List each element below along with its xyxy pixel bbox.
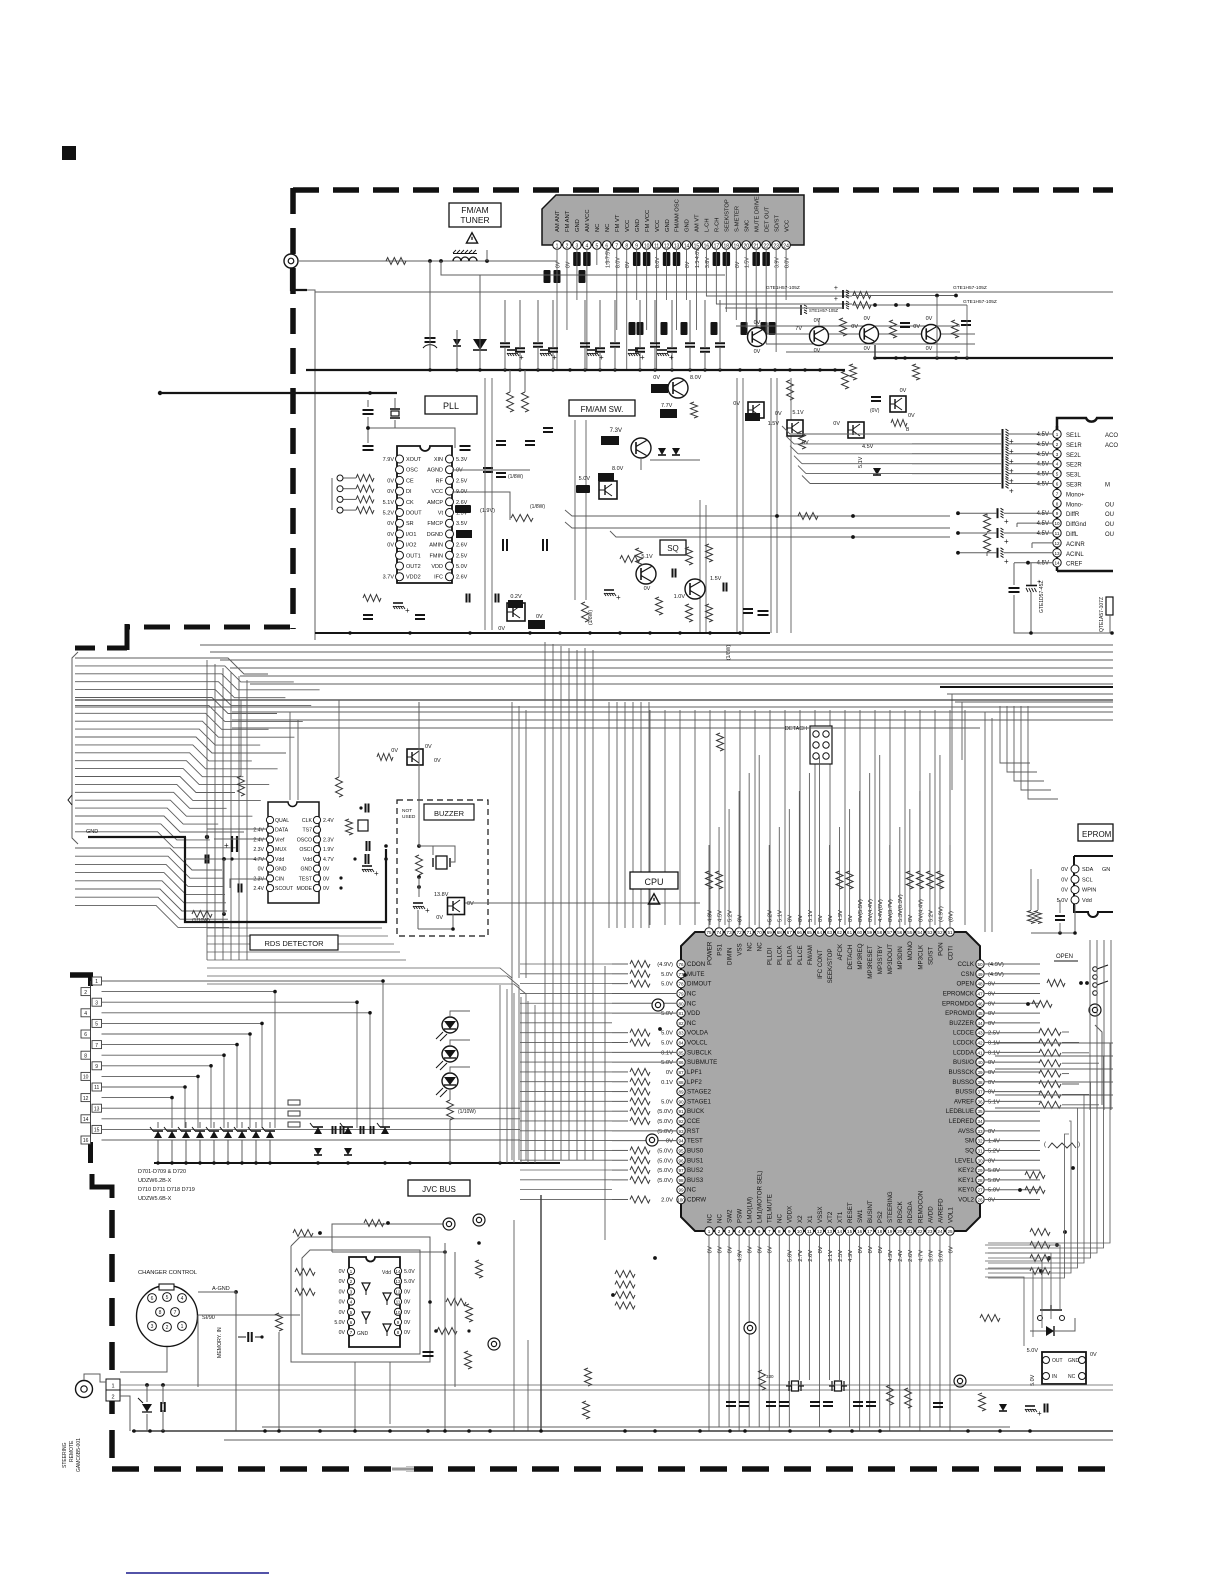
- svg-text:(0V): (0V): [948, 911, 954, 922]
- svg-text:7.7V: 7.7V: [661, 403, 673, 409]
- svg-text:8: 8: [1056, 501, 1059, 506]
- svg-text:3: 3: [576, 244, 579, 250]
- svg-text:5.1V: 5.1V: [988, 1099, 1000, 1105]
- svg-text:(4.9V): (4.9V): [988, 962, 1004, 968]
- svg-text:3.5V: 3.5V: [456, 521, 468, 527]
- capacitor C118: [900, 322, 910, 324]
- transistor Q301: [636, 564, 656, 584]
- svg-text:PS1: PS1: [716, 944, 723, 956]
- svg-text:1.3-7.5V: 1.3-7.5V: [605, 248, 611, 268]
- svg-text:TEST: TEST: [299, 876, 313, 882]
- svg-text:PSW: PSW: [737, 1209, 744, 1223]
- steering connector pins: [106, 1379, 120, 1390]
- svg-text:0V: 0V: [858, 1246, 864, 1253]
- svg-text:OU: OU: [1105, 532, 1114, 538]
- CPU right wires: [985, 963, 1040, 965]
- svg-text:11: 11: [807, 1229, 812, 1234]
- CPU pin 16 SW1: [855, 1227, 863, 1235]
- svg-text:UDZW5.6B-X: UDZW5.6B-X: [138, 1196, 172, 1202]
- CPU pin 42 LCDCK: [976, 1038, 984, 1046]
- svg-text:71: 71: [747, 930, 753, 935]
- svg-text:+: +: [519, 353, 524, 362]
- svg-text:11: 11: [1055, 531, 1060, 536]
- svg-text:MUX: MUX: [275, 847, 287, 853]
- svg-text:4: 4: [585, 244, 588, 250]
- svg-text:0V: 0V: [851, 324, 858, 330]
- CPU pin 49 CSN: [976, 970, 984, 978]
- svg-text:23: 23: [773, 244, 779, 250]
- EPROM pull resistors: [1028, 911, 1035, 924]
- svg-text:USED: USED: [402, 814, 416, 820]
- svg-text:EPROMDO: EPROMDO: [942, 1000, 974, 1007]
- connector pin 16: [81, 1136, 91, 1144]
- svg-text:TEST: TEST: [687, 1138, 703, 1145]
- verticals buzzer to staircase: [511, 702, 513, 978]
- EPROM pin 6 WPIN: [1071, 886, 1079, 894]
- tuner pin 22 voltage: [762, 252, 770, 266]
- svg-text:LCDCK: LCDCK: [953, 1040, 975, 1047]
- svg-text:AM VT: AM VT: [695, 214, 701, 232]
- GND heavy wire: [88, 836, 186, 838]
- key lower resistors: [1025, 1172, 1045, 1179]
- diode D710: [314, 1148, 322, 1155]
- svg-text:XIN: XIN: [434, 457, 443, 463]
- SM resistor bracket: [1048, 1143, 1076, 1148]
- svg-text:0V: 0V: [387, 532, 394, 538]
- changer pin 3: [148, 1322, 157, 1331]
- svg-text:SE1L: SE1L: [1066, 433, 1081, 439]
- svg-text:Vdd: Vdd: [303, 857, 312, 863]
- svg-text:RDSDA: RDSDA: [907, 1200, 914, 1223]
- diode D101: [453, 339, 461, 346]
- svg-text:0V: 0V: [323, 876, 330, 882]
- svg-text:0V: 0V: [848, 915, 854, 922]
- svg-text:4.5V: 4.5V: [1037, 462, 1049, 468]
- svg-text:53: 53: [927, 930, 933, 935]
- mid verticals jvc: [540, 1195, 542, 1431]
- svg-text:1.3-4.0V: 1.3-4.0V: [695, 248, 701, 268]
- svg-text:PON: PON: [937, 942, 944, 955]
- label JVC BUS: [408, 1180, 470, 1196]
- svg-text:PLL: PLL: [443, 401, 459, 411]
- tuner pin 13 voltage: [673, 252, 681, 266]
- svg-text:SE1R: SE1R: [1066, 443, 1082, 449]
- EPROM pin 5 Vdd: [1071, 896, 1079, 904]
- CPU pin 7 TELMUTE: [765, 1227, 773, 1235]
- steering diode: [142, 1404, 152, 1412]
- svg-text:+: +: [834, 285, 838, 292]
- svg-text:(1/8W): (1/8W): [508, 474, 523, 480]
- resistor R115: [787, 380, 794, 400]
- svg-text:Mono-: Mono-: [1066, 502, 1083, 508]
- CPU pin 93 RST: [677, 1127, 685, 1135]
- svg-text:0V: 0V: [387, 489, 394, 495]
- svg-text:+: +: [425, 906, 430, 915]
- svg-text:LEDRED: LEDRED: [949, 1118, 975, 1125]
- changer wires: [198, 1291, 236, 1293]
- CPU pin 58 MP3STBY: [876, 928, 884, 936]
- CPU pin 61 DETACH: [845, 928, 853, 936]
- svg-text:SCL: SCL: [1082, 877, 1093, 883]
- svg-text:2.5V: 2.5V: [456, 553, 468, 559]
- PLL pin 13 IFC: [446, 573, 454, 581]
- PLL pin 19 Vt: [446, 509, 454, 517]
- svg-text:NOT: NOT: [402, 808, 412, 814]
- svg-text:OSC: OSC: [406, 468, 418, 474]
- audio wires left bundle: [790, 433, 912, 435]
- svg-text:0V: 0V: [754, 349, 761, 355]
- svg-text:5.0V: 5.0V: [661, 1060, 673, 1066]
- svg-text:8.0V: 8.0V: [690, 375, 702, 381]
- svg-text:2: 2: [566, 244, 569, 250]
- svg-text:5.1V: 5.1V: [383, 500, 395, 506]
- svg-text:+: +: [599, 353, 604, 362]
- diode D102: [473, 339, 487, 350]
- tuner pin 8 VCC: [622, 241, 631, 250]
- RDS pin 9 MODE: [313, 884, 320, 891]
- wire antenna branch down: [291, 268, 307, 290]
- PLL pin 23 AGND: [446, 466, 454, 474]
- transistor Q305 boxed: [507, 603, 525, 621]
- svg-text:NC: NC: [716, 1214, 723, 1223]
- svg-text:TS7: TS7: [302, 828, 312, 834]
- CPU pin 91 BUCK: [677, 1107, 685, 1115]
- svg-text:EPROMCK: EPROMCK: [943, 990, 975, 997]
- svg-text:+: +: [1004, 557, 1009, 566]
- svg-text:+: +: [1037, 1409, 1042, 1418]
- svg-text:3: 3: [1056, 452, 1059, 457]
- svg-text:AMCP: AMCP: [427, 500, 443, 506]
- svg-text:+: +: [1004, 517, 1009, 526]
- CPU pin 44 BUZZER: [976, 1019, 984, 1027]
- resistor diag: [511, 515, 533, 522]
- svg-text:3: 3: [151, 1324, 154, 1330]
- svg-text:0V: 0V: [467, 901, 474, 907]
- svg-text:5: 5: [748, 1229, 751, 1234]
- svg-text:24: 24: [937, 1229, 943, 1234]
- changer pin 4: [178, 1294, 187, 1303]
- svg-text:4.5V: 4.5V: [1037, 452, 1049, 458]
- wire fan lower tail: [75, 848, 222, 870]
- jvc area resistors: [364, 1220, 384, 1227]
- RDS section frame: [185, 837, 386, 922]
- RDS pin 7 CIN: [266, 875, 273, 882]
- svg-text:5.0V: 5.0V: [661, 1031, 673, 1037]
- svg-text:VCC: VCC: [431, 489, 443, 495]
- diode D706: [224, 1131, 232, 1138]
- changer pin 7: [171, 1308, 180, 1317]
- diode D711: [344, 1148, 352, 1155]
- svg-text:2: 2: [718, 1229, 721, 1234]
- svg-text:0V: 0V: [387, 543, 394, 549]
- svg-text:2: 2: [1056, 442, 1059, 447]
- svg-text:(5.0V): (5.0V): [657, 1119, 673, 1125]
- RDS pin 1 QUAL: [266, 816, 273, 823]
- svg-text:5.0V: 5.0V: [661, 1041, 673, 1047]
- changer pin 1: [178, 1322, 187, 1331]
- tuner pin 19 S-METER: [732, 241, 741, 250]
- svg-text:0.1V: 0.1V: [988, 1041, 1000, 1047]
- dashed board border left lower dash: [88, 1142, 93, 1163]
- PLL pin 20 AMCP: [446, 498, 454, 506]
- svg-text:+: +: [616, 593, 621, 602]
- PLL pin 4 DI: [396, 487, 404, 495]
- svg-text:AVREFD: AVREFD: [937, 1198, 944, 1223]
- svg-text:RF: RF: [436, 478, 444, 484]
- RDS pin 10 TEST: [313, 875, 320, 882]
- svg-text:0V: 0V: [391, 748, 398, 754]
- wire: [429, 330, 431, 370]
- xtal resistor: [759, 1370, 766, 1390]
- routing frame inner: [332, 1224, 445, 1252]
- svg-text:CIN: CIN: [275, 876, 284, 882]
- svg-text:15: 15: [847, 1229, 853, 1234]
- svg-text:9: 9: [1056, 511, 1059, 516]
- mid dark bus: [315, 632, 770, 634]
- svg-text:+: +: [1004, 537, 1009, 546]
- svg-text:(1/10W): (1/10W): [192, 918, 210, 924]
- svg-text:DETACH: DETACH: [785, 726, 807, 732]
- RDS right 0V dots: [339, 876, 342, 879]
- svg-text:4.7V: 4.7V: [918, 1250, 924, 1262]
- svg-text:FM/AM: FM/AM: [461, 205, 488, 215]
- bus lines mid page: [200, 644, 1113, 646]
- svg-text:0V: 0V: [404, 1310, 411, 1316]
- CPU pin 21 RDSDA: [906, 1227, 914, 1235]
- svg-text:DiffL: DiffL: [1066, 532, 1079, 538]
- svg-text:XT1: XT1: [837, 1211, 844, 1223]
- svg-text:0V: 0V: [556, 261, 562, 268]
- svg-text:1: 1: [111, 1384, 114, 1390]
- diode D704: [196, 1131, 204, 1138]
- CPU pin 83 VOLDA: [677, 1028, 685, 1036]
- svg-text:NC: NC: [687, 990, 696, 997]
- svg-text:77: 77: [678, 972, 684, 977]
- svg-text:8: 8: [625, 244, 628, 250]
- svg-text:0V: 0V: [868, 1246, 874, 1253]
- svg-text:2: 2: [111, 1395, 114, 1401]
- svg-text:9: 9: [788, 1229, 791, 1234]
- CPU top resistors: [706, 871, 713, 889]
- CPU pin 84 VOLCL: [677, 1038, 685, 1046]
- svg-text:NC: NC: [687, 1020, 696, 1027]
- svg-text:10: 10: [396, 1310, 401, 1315]
- svg-text:0V: 0V: [988, 1021, 995, 1027]
- bus IC pin 11: [394, 1298, 401, 1305]
- svg-text:11: 11: [654, 244, 659, 250]
- svg-text:4.5V: 4.5V: [1037, 511, 1049, 517]
- svg-text:CCLK: CCLK: [957, 961, 974, 968]
- CPU pin 77 MUTE: [677, 970, 685, 978]
- svg-text:70: 70: [757, 930, 763, 935]
- buzzer bottom wires: [417, 910, 419, 929]
- buzzer transistor boxed: [448, 898, 465, 915]
- audio IC pin 10 DiffGnd: [1053, 519, 1061, 527]
- right nested frames below audio: [947, 693, 1113, 695]
- svg-text:4.9V: 4.9V: [707, 910, 713, 922]
- svg-text:BUZZER: BUZZER: [949, 1020, 974, 1027]
- svg-text:CPU: CPU: [644, 877, 663, 887]
- svg-text:99: 99: [678, 1188, 684, 1193]
- tuner pin 16 L-CH: [702, 241, 711, 250]
- svg-text:0V: 0V: [258, 867, 265, 873]
- test pads jvc: [443, 1218, 455, 1230]
- svg-text:+: +: [1009, 487, 1014, 496]
- bus lines mid page2: [75, 699, 1113, 701]
- connector pin 1: [92, 977, 102, 985]
- svg-text:OSCO: OSCO: [297, 837, 312, 843]
- CPU pin 18 PS2: [876, 1227, 884, 1235]
- diode D719 and caps: [344, 1127, 352, 1134]
- CPU pin 97 BUS2: [677, 1166, 685, 1174]
- svg-text:5.0V: 5.0V: [661, 1011, 673, 1017]
- dashed board border bottom: [112, 1466, 1113, 1472]
- svg-text:69: 69: [767, 930, 773, 935]
- svg-text:GTE1H57-105Z: GTE1H57-105Z: [963, 299, 997, 305]
- RDS pin 6 GND: [266, 865, 273, 872]
- svg-text:GND: GND: [575, 219, 581, 232]
- svg-text:NC: NC: [747, 942, 754, 951]
- buzzer cap: [413, 902, 423, 904]
- svg-text:0V: 0V: [1061, 867, 1068, 873]
- svg-text:67: 67: [787, 930, 793, 935]
- svg-text:32: 32: [977, 1139, 983, 1144]
- CPU pin 13 XT2: [825, 1227, 833, 1235]
- svg-text:1: 1: [181, 1324, 184, 1330]
- svg-text:OUT: OUT: [1052, 1358, 1063, 1364]
- svg-text:+: +: [552, 353, 557, 362]
- tuner connector CN101 body: [542, 195, 804, 245]
- svg-text:DATA: DATA: [275, 828, 289, 834]
- RDS pin 14 OSCO: [313, 836, 320, 843]
- svg-text:39: 39: [977, 1070, 983, 1075]
- resistor (1/8W): [582, 602, 589, 622]
- tuner pin 4 voltage: [583, 252, 591, 266]
- svg-text:FM/AM OSC: FM/AM OSC: [675, 199, 681, 232]
- diode right: [873, 468, 881, 475]
- svg-text:0V: 0V: [666, 1139, 673, 1145]
- CPU pin 37 BUSSI: [976, 1087, 984, 1095]
- svg-text:35: 35: [977, 1109, 983, 1114]
- right thick divider: [940, 686, 1113, 688]
- bus IC pin 12: [394, 1288, 401, 1295]
- svg-text:7: 7: [615, 244, 618, 250]
- CPU pin 100 CDRW: [677, 1195, 685, 1203]
- svg-text:7: 7: [95, 1043, 98, 1049]
- svg-text:5.0V: 5.0V: [661, 982, 673, 988]
- tuner right horizontals: [706, 295, 852, 297]
- svg-text:87: 87: [678, 1070, 684, 1075]
- svg-text:GND: GND: [86, 829, 98, 835]
- svg-text:0.1V: 0.1V: [661, 1080, 673, 1086]
- svg-text:92: 92: [678, 1119, 684, 1124]
- svg-text:2.6V: 2.6V: [456, 543, 468, 549]
- blue footer rule: [126, 1572, 269, 1574]
- label CPU: [630, 872, 678, 889]
- svg-text:90: 90: [678, 1099, 684, 1104]
- svg-text:MP3DIN: MP3DIN: [897, 946, 904, 969]
- svg-text:PS2: PS2: [877, 1211, 884, 1223]
- svg-text:0V: 0V: [988, 982, 995, 988]
- svg-text:SEEK/STOP: SEEK/STOP: [725, 199, 731, 232]
- svg-text:REMOTE: REMOTE: [69, 1440, 75, 1462]
- svg-text:STAGE1: STAGE1: [687, 1098, 712, 1105]
- PLL inverted labels: [455, 505, 471, 513]
- svg-text:38: 38: [977, 1080, 983, 1085]
- svg-text:0V: 0V: [498, 626, 505, 632]
- RDS vdd caps: [365, 854, 367, 864]
- svg-text:0V: 0V: [798, 915, 804, 922]
- right ladder resistors2: [1030, 1229, 1050, 1236]
- bottom left resistor stack: [615, 1271, 635, 1278]
- svg-text:GND: GND: [635, 219, 641, 232]
- connector pin 15: [92, 1125, 102, 1133]
- diode D701: [154, 1131, 162, 1138]
- svg-text:GTE1D57-45Z: GTE1D57-45Z: [1039, 580, 1045, 613]
- wire pll right: [452, 469, 530, 471]
- svg-text:26: 26: [977, 1198, 983, 1203]
- CPU pin 56 MP3DIN: [896, 928, 904, 936]
- CPU pin 78 DIMOUT: [677, 979, 685, 987]
- svg-text:44: 44: [977, 1021, 983, 1026]
- sq right resistors: [842, 371, 849, 389]
- RDS pin 12 Vdd: [313, 855, 320, 862]
- svg-text:GND: GND: [300, 867, 312, 873]
- bus IC pin 7: [347, 1329, 354, 1336]
- crystal X1: [786, 1381, 804, 1391]
- wire fan upper harness: [75, 658, 268, 674]
- svg-text:7.3V: 7.3V: [610, 428, 622, 434]
- svg-text:NC: NC: [687, 1000, 696, 1007]
- transistor Q308 boxed: [787, 420, 803, 436]
- steering cap: [160, 1402, 162, 1412]
- svg-text:BUSSCK: BUSSCK: [949, 1069, 975, 1076]
- svg-text:SE3L: SE3L: [1066, 473, 1081, 479]
- svg-text:Vdd: Vdd: [382, 1270, 391, 1276]
- PLL bottom resistor: [363, 595, 381, 602]
- svg-text:OUT2: OUT2: [406, 564, 421, 570]
- tuner pin 17 R-CH: [712, 241, 721, 250]
- svg-text:0V: 0V: [864, 346, 871, 352]
- svg-text:40: 40: [977, 1060, 983, 1065]
- CPU pin 64 IFC CONT: [815, 928, 823, 936]
- thick bus right: [875, 357, 1113, 359]
- svg-text:0V: 0V: [738, 915, 744, 922]
- transistor Q201 boxed: [599, 481, 617, 499]
- svg-text:62: 62: [837, 930, 843, 935]
- CPU pin 67 PLLDA: [785, 928, 793, 936]
- wire: [367, 400, 369, 407]
- svg-text:9: 9: [635, 244, 638, 250]
- svg-text:VCC: VCC: [655, 220, 661, 232]
- svg-text:18: 18: [724, 244, 730, 250]
- CPU pin 28 KEY1: [976, 1176, 984, 1184]
- routing frame mid: [302, 1250, 420, 1354]
- svg-text:19: 19: [733, 244, 739, 250]
- svg-text:12: 12: [1054, 541, 1060, 546]
- CPU pin 29 KEY2: [976, 1166, 984, 1174]
- PLL pin 6 DOUT: [396, 509, 404, 517]
- svg-text:CDON: CDON: [687, 961, 705, 968]
- svg-text:IFC: IFC: [434, 575, 443, 581]
- svg-text:NC: NC: [757, 942, 764, 951]
- CPU pin 81 VDD: [677, 1009, 685, 1017]
- connector pin 10: [81, 1072, 91, 1080]
- svg-text:FMCP: FMCP: [427, 521, 443, 527]
- audio diffgnd corner wires: [1017, 522, 1053, 524]
- svg-text:BUS3: BUS3: [687, 1177, 704, 1184]
- svg-text:0V: 0V: [818, 915, 824, 922]
